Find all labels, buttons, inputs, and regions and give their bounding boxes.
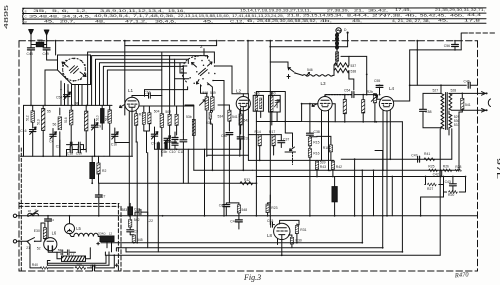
wire L3 left entry bbox=[302, 103, 318, 105]
svg-text:45,: 45, bbox=[438, 19, 448, 23]
power unit dashed partition vertical inner bbox=[120, 206, 122, 271]
capacitor C31 bbox=[237, 137, 244, 139]
capacitor C55 bbox=[376, 85, 383, 87]
power nested line 1 bbox=[47, 255, 106, 263]
wire 170.3 line bbox=[194, 169, 253, 171]
svg-text:C4: C4 bbox=[49, 139, 53, 143]
capacitor C53 bbox=[271, 222, 273, 227]
svg-text:C58: C58 bbox=[425, 110, 431, 114]
volume control contact bbox=[290, 147, 295, 151]
wire band bus 3 bbox=[96, 59, 189, 105]
wire L2 pins down bbox=[240, 94, 249, 171]
svg-text:21,: 21, bbox=[354, 8, 364, 12]
svg-text:C11: C11 bbox=[178, 150, 184, 154]
resistor R40 bbox=[40, 267, 48, 270]
svg-text:C37: C37 bbox=[283, 137, 289, 141]
coil 513 bbox=[42, 109, 45, 131]
svg-text:536: 536 bbox=[254, 91, 260, 95]
wire mesh drop bbox=[421, 192, 444, 216]
svg-text:R2: R2 bbox=[102, 169, 106, 173]
grid contact arrow bbox=[120, 105, 125, 108]
capacitor C45 bbox=[93, 265, 95, 271]
svg-text:511: 511 bbox=[104, 115, 108, 121]
svg-text:R30: R30 bbox=[296, 238, 302, 242]
wire L3 cathode down bbox=[322, 110, 329, 170]
svg-text:583: 583 bbox=[122, 208, 128, 212]
svg-text:45,: 45, bbox=[44, 20, 54, 24]
tube L3 envelope bbox=[318, 97, 332, 111]
chassis dashed border right bbox=[477, 41, 479, 271]
wire L1 pins down bbox=[129, 111, 132, 216]
wire lamp shunt loop bbox=[337, 33, 348, 47]
coil 510 dark bbox=[101, 109, 104, 123]
power unit dashed partition horizontal upper bbox=[19, 203, 119, 205]
svg-text:510: 510 bbox=[96, 115, 100, 121]
node earth on border bbox=[46, 40, 48, 42]
wire vertical 193.8 bbox=[185, 105, 194, 170]
wire hum coil pins bbox=[449, 128, 452, 159]
bus crossing dots bbox=[361, 215, 363, 217]
svg-text:C49: C49 bbox=[43, 52, 49, 56]
scale band line 4 bbox=[23, 22, 487, 24]
wire band bus 6 bbox=[107, 70, 161, 105]
tube L6 envelope bbox=[44, 238, 57, 251]
svg-text:502: 502 bbox=[165, 110, 171, 114]
resistor 549 bbox=[129, 219, 132, 227]
tube L4 electrodes bbox=[383, 99, 391, 101]
wire band bus 2 bbox=[92, 56, 208, 106]
capacitor C13 bbox=[149, 93, 151, 98]
switch S1 contact pins bbox=[65, 60, 67, 62]
wire band bus 5 bbox=[103, 66, 183, 105]
field coil loops bbox=[70, 233, 99, 236]
capacitor C3 link bbox=[59, 140, 61, 156]
wire L1 top line bbox=[132, 96, 148, 98]
mains terminal 2 bbox=[13, 240, 16, 243]
choke 522 dark bbox=[90, 163, 95, 179]
resistor R2b bbox=[373, 94, 376, 103]
wire long vertical 166 bbox=[166, 142, 177, 149]
capacitor C49 bbox=[43, 48, 50, 50]
wire L5 to bus bbox=[69, 216, 71, 224]
svg-text:C54: C54 bbox=[344, 88, 350, 92]
svg-text:17,45,: 17,45, bbox=[395, 8, 411, 12]
capacitor C56 bbox=[452, 45, 459, 47]
wire long vertical 147.7 bbox=[147, 153, 149, 248]
slider mark 546 bbox=[307, 73, 310, 76]
power nested line 2 bbox=[47, 252, 109, 265]
capacitor C37 bbox=[278, 141, 285, 143]
svg-text:R1: R1 bbox=[139, 113, 143, 117]
trimmer C50b bbox=[164, 136, 171, 143]
chassis dashed border left bbox=[18, 41, 20, 271]
wire grid feed L8 bbox=[269, 95, 271, 225]
svg-text:17,8: 17,8 bbox=[464, 19, 480, 23]
wire detector link 160.4 bbox=[248, 159, 334, 161]
scale band line 1 bbox=[23, 7, 487, 9]
svg-text:7,1,7,48,0,36,: 7,1,7,48,0,36, bbox=[133, 14, 175, 18]
svg-text:E30: E30 bbox=[34, 229, 40, 233]
wire avc line bbox=[99, 182, 250, 184]
wrap riser 382.7 bbox=[375, 151, 383, 248]
svg-text:545: 545 bbox=[137, 238, 143, 242]
coil 499 aerial coupling bbox=[36, 42, 43, 46]
resistor R14 bbox=[258, 135, 261, 146]
resistor R18 bbox=[329, 145, 332, 152]
svg-text:R20: R20 bbox=[448, 193, 454, 197]
tube L2 electrodes bbox=[239, 99, 247, 101]
svg-text:R31: R31 bbox=[300, 228, 306, 232]
speaker bracket bbox=[488, 99, 490, 107]
resistance wire 546 bbox=[303, 75, 334, 77]
capacitor C44 bbox=[236, 220, 243, 222]
svg-text:C56: C56 bbox=[444, 44, 450, 48]
svg-text:531: 531 bbox=[454, 123, 460, 127]
svg-text:R17: R17 bbox=[269, 130, 275, 134]
resistor 541 bbox=[228, 110, 231, 121]
wire pack vertical bbox=[255, 122, 257, 216]
wire osc left drop bbox=[270, 62, 288, 68]
wire S2 pins to IF1 bbox=[201, 83, 213, 93]
wrap wire 247.8 bbox=[116, 248, 382, 251]
svg-text:25,15,14,95,34,: 25,15,14,95,34, bbox=[303, 14, 343, 18]
coil 53b bbox=[192, 119, 195, 135]
svg-text:C31: C31 bbox=[243, 136, 249, 140]
svg-text:6,: 6, bbox=[247, 19, 255, 23]
svg-text:58: 58 bbox=[75, 102, 79, 106]
svg-text:12: 12 bbox=[109, 232, 113, 236]
wire R23 top link bbox=[268, 195, 271, 203]
scale band line 2 bbox=[23, 12, 487, 14]
resistor R20 bbox=[449, 191, 458, 194]
capacitor C43 bbox=[450, 184, 457, 186]
mains switch 21 52 bbox=[27, 238, 41, 242]
wire 366 riser bbox=[349, 56, 367, 94]
svg-text:C19: C19 bbox=[76, 151, 82, 155]
node aerial on border bbox=[30, 40, 32, 42]
svg-text:17,41,48,51,13,23,24,25,: 17,41,48,51,13,23,24,25, bbox=[232, 14, 284, 18]
wire S2 stem bbox=[203, 49, 205, 55]
wrap riser 402.4 bbox=[401, 122, 403, 252]
svg-text:R2b: R2b bbox=[367, 90, 373, 94]
svg-text:C15: C15 bbox=[134, 208, 140, 212]
wire 176.5 line bbox=[256, 176, 465, 178]
scale band left bracket bbox=[23, 8, 24, 23]
wire aerial down bbox=[30, 35, 32, 48]
svg-text:C47: C47 bbox=[411, 153, 417, 157]
resistor 542 bbox=[239, 114, 242, 125]
wire coil bank top bus bbox=[24, 104, 113, 106]
svg-text:L22: L22 bbox=[147, 219, 153, 223]
svg-text:21,8,: 21,8, bbox=[287, 14, 301, 18]
speaker terminal arrows bbox=[482, 92, 486, 113]
svg-text:R27: R27 bbox=[427, 187, 433, 191]
wire osc coil box bbox=[341, 56, 354, 90]
capacitor C54 bbox=[352, 92, 354, 98]
svg-text:45,: 45, bbox=[203, 19, 213, 23]
node L22 bbox=[147, 211, 149, 213]
svg-text:46b,: 46b, bbox=[450, 13, 464, 17]
svg-text:C,12,: C,12, bbox=[230, 19, 244, 23]
wire chain to osc coils bbox=[334, 61, 337, 75]
tube L6 electrodes bbox=[47, 240, 54, 242]
capacitor C58 bbox=[420, 109, 427, 111]
svg-text:527: 527 bbox=[433, 89, 439, 93]
svg-text:44,4: 44,4 bbox=[467, 13, 481, 17]
svg-text:34,3,4,5,: 34,3,4,5, bbox=[62, 14, 91, 18]
svg-text:539: 539 bbox=[320, 161, 326, 165]
main earth bus bbox=[20, 215, 478, 217]
capacitor C48 bbox=[28, 48, 35, 50]
wire L6 pins caps bbox=[48, 250, 75, 252]
svg-text:15,14,17,18,19,20,33,27,13,11,: 15,14,17,18,19,20,33,27,13,11, bbox=[240, 9, 311, 13]
svg-text:L7: L7 bbox=[71, 253, 75, 257]
svg-text:5, 6,: 5, 6, bbox=[52, 9, 69, 13]
svg-text:538: 538 bbox=[351, 69, 357, 73]
svg-text:56,42,45,: 56,42,45, bbox=[420, 13, 446, 17]
dial lamp D bbox=[336, 28, 341, 33]
tube L1 envelope bbox=[125, 97, 139, 111]
wire coils bottom stubs to low bus bbox=[33, 122, 110, 156]
svg-text:R41: R41 bbox=[424, 152, 430, 156]
svg-text:541: 541 bbox=[232, 115, 238, 119]
svg-text:3,8,9,10,11,12,13,4,: 3,8,9,10,11,12,13,4, bbox=[100, 9, 164, 13]
wire border to switch top bbox=[55, 41, 57, 55]
wire 170.3 line bbox=[252, 169, 330, 172]
svg-text:513: 513 bbox=[37, 119, 41, 125]
wire L1 side line bbox=[139, 105, 194, 107]
svg-text:20,7,: 20,7, bbox=[60, 20, 75, 24]
capacitor 454 bbox=[45, 219, 52, 221]
wire border tap 248 bbox=[247, 41, 249, 94]
svg-text:R23: R23 bbox=[271, 206, 277, 210]
svg-text:499: 499 bbox=[37, 38, 43, 42]
svg-text:L8: L8 bbox=[267, 233, 272, 238]
coil 511 bbox=[108, 110, 111, 123]
coil 512 bbox=[31, 111, 34, 122]
resistor R24 bbox=[362, 100, 365, 113]
wire C18 C19 link bbox=[72, 149, 86, 152]
svg-text:R2b: R2b bbox=[443, 165, 449, 169]
svg-text:45,: 45, bbox=[352, 19, 362, 23]
svg-text:C18: C18 bbox=[67, 151, 73, 155]
wire C49 to switch bbox=[47, 50, 58, 60]
resistor R31 bbox=[295, 225, 298, 233]
svg-text:56: 56 bbox=[53, 123, 57, 127]
svg-text:C1b: C1b bbox=[111, 143, 117, 147]
svg-text:R40: R40 bbox=[32, 263, 38, 267]
resistor R2 bbox=[97, 163, 100, 174]
wire band bus 4 bbox=[100, 63, 187, 106]
wire line 121.8 bbox=[332, 104, 402, 122]
capacitor C19 bbox=[78, 147, 80, 153]
wire long vertical 137 bbox=[136, 142, 137, 243]
wire S2 right exits bbox=[213, 66, 248, 216]
wire S2 left stubs bbox=[175, 66, 189, 79]
wire S1 left lower bbox=[45, 70, 58, 105]
wire mid bundle verticals bbox=[162, 52, 184, 132]
switch S2 rotor bbox=[199, 68, 208, 75]
svg-text:C30: C30 bbox=[221, 134, 227, 138]
svg-text:C42: C42 bbox=[433, 172, 439, 176]
trimmer C16 bbox=[30, 127, 37, 134]
svg-text:53b: 53b bbox=[186, 115, 192, 119]
svg-text:C3: C3 bbox=[56, 144, 60, 148]
svg-text:S: S bbox=[25, 9, 27, 13]
svg-text:C44: C44 bbox=[230, 220, 236, 224]
svg-text:534Ω: 534Ω bbox=[98, 232, 106, 236]
wire top feed bbox=[410, 41, 462, 86]
output transformer secondary 528 bbox=[449, 93, 452, 110]
svg-text:21,35,29,30,31,32,71,: 21,35,29,30,31,32,71, bbox=[435, 8, 485, 12]
wire S2 to grid line bbox=[145, 87, 188, 97]
IF transformer 1 coil 520 bbox=[211, 97, 214, 110]
wire L3 grid lead beaded bbox=[325, 95, 352, 97]
svg-text:R18: R18 bbox=[323, 146, 329, 150]
svg-text:541: 541 bbox=[465, 103, 471, 107]
svg-text:18: 18 bbox=[28, 209, 32, 213]
svg-text:Fig.3: Fig.3 bbox=[243, 273, 261, 282]
output transformer core bbox=[446, 93, 448, 130]
svg-text:540: 540 bbox=[270, 91, 276, 95]
electrolytic block bbox=[100, 236, 114, 242]
wire R18 branch bbox=[310, 136, 331, 160]
resistor R19 bbox=[343, 99, 346, 113]
lamp L5 bbox=[65, 224, 75, 234]
wire R14 R17 tops bbox=[248, 135, 281, 161]
resistor 548 bbox=[75, 267, 86, 270]
capacitor C3b bbox=[127, 230, 134, 232]
capacitor 54a bbox=[70, 142, 72, 147]
tube L8 envelope bbox=[274, 223, 290, 239]
svg-text:537: 537 bbox=[351, 64, 357, 68]
switch S1 contact ring bbox=[74, 58, 85, 69]
thermal fuse bead chain bbox=[336, 33, 338, 62]
resistor R44 bbox=[424, 158, 435, 161]
trimmer C1b bbox=[112, 132, 119, 139]
wire band bus 1 bbox=[88, 52, 215, 105]
resistor 503 bbox=[175, 114, 178, 125]
coil 516 bbox=[70, 110, 73, 125]
coil 56 bbox=[58, 117, 61, 130]
trimmer C5 bbox=[151, 132, 158, 139]
svg-text:534: 534 bbox=[218, 115, 224, 119]
mains terminal 1 bbox=[13, 214, 16, 217]
gramophone jacks on bus bbox=[28, 211, 39, 217]
wrap wire 251.9 bbox=[126, 251, 402, 253]
wire earth down bbox=[46, 35, 48, 48]
mains dropper box bbox=[62, 256, 86, 261]
resistor R16 bbox=[308, 149, 311, 158]
osc switch contacts bbox=[288, 68, 294, 73]
IF1 trimmer arrow bbox=[200, 100, 206, 106]
power choke L11 dark bbox=[128, 207, 133, 215]
svg-text:R15: R15 bbox=[313, 140, 319, 144]
svg-text:4895: 4895 bbox=[4, 5, 10, 29]
wire vertical 373.5 bbox=[373, 170, 375, 216]
capacitor 505 bbox=[142, 112, 145, 124]
coil 55 bbox=[85, 111, 88, 131]
wire r-c mesh bbox=[444, 177, 466, 193]
wire cluster verticals down bbox=[183, 149, 188, 183]
switch S2 contacts bbox=[194, 58, 196, 60]
resistor R26 bbox=[443, 169, 452, 172]
scale band line 3 bbox=[23, 18, 487, 20]
power unit dashed partition vertical outer bbox=[117, 204, 119, 271]
earth terminal arrow bbox=[45, 30, 49, 35]
capacitor C30 bbox=[226, 133, 233, 135]
R2b trimmer arrow bbox=[371, 95, 377, 101]
osc coil pack 540 bbox=[269, 95, 281, 112]
svg-text:27,38,39,: 27,38,39, bbox=[327, 8, 349, 12]
svg-text:L3: L3 bbox=[321, 81, 327, 86]
capacitor C17 series pair bbox=[157, 143, 159, 149]
capacitor C38 bbox=[307, 133, 314, 135]
svg-text:C3: C3 bbox=[134, 229, 138, 233]
tube L2 envelope bbox=[236, 97, 250, 111]
wire vertical 270 from border bbox=[269, 41, 271, 95]
svg-text:C13: C13 bbox=[144, 90, 150, 94]
svg-text:C5b: C5b bbox=[161, 150, 167, 154]
svg-text:36,4,6,: 36,4,6, bbox=[155, 20, 176, 24]
trimmer C4 bbox=[50, 132, 57, 139]
switch S2 wiper arrows bbox=[192, 63, 197, 68]
tube L8 electrodes bbox=[277, 227, 286, 229]
switch S1 wiper arrows bbox=[62, 62, 68, 67]
trimmer C50 bbox=[64, 95, 71, 97]
svg-text:2: 2 bbox=[200, 44, 203, 49]
resistor 540 bbox=[461, 98, 464, 109]
wire 170.3 right bbox=[330, 169, 459, 171]
svg-text:L5: L5 bbox=[76, 226, 81, 231]
capacitor C10 stack bbox=[174, 132, 176, 149]
svg-text:519: 519 bbox=[203, 91, 209, 95]
svg-text:C9: C9 bbox=[97, 124, 101, 128]
coil 538 bbox=[334, 68, 349, 72]
capacitor 56b bbox=[67, 250, 69, 255]
svg-text:R25: R25 bbox=[428, 165, 434, 169]
resistor R15 bbox=[308, 137, 311, 146]
resistor R23 bbox=[266, 204, 269, 213]
svg-text:4b,: 4b, bbox=[320, 19, 332, 23]
svg-text:L2: L2 bbox=[236, 88, 242, 93]
IF1 small coil 534 bbox=[209, 112, 212, 119]
svg-text:15,16,: 15,16, bbox=[168, 9, 185, 13]
wrap riser 362.3 bbox=[361, 170, 363, 242]
wire primary top bbox=[423, 85, 441, 109]
resistor R28 bbox=[455, 169, 461, 171]
capacitor C46 bbox=[468, 82, 470, 88]
svg-text:504: 504 bbox=[154, 110, 160, 114]
resistor R27 bbox=[427, 183, 436, 186]
power unit dashed partition horizontal lower bbox=[19, 205, 119, 207]
wire C48 to coil bank bbox=[30, 50, 32, 106]
svg-text:5b: 5b bbox=[35, 208, 39, 212]
wrap riser 440.2 bbox=[439, 129, 441, 255]
capacitor 54b bbox=[78, 142, 80, 147]
wire coil bank lower bus bbox=[21, 155, 105, 157]
svg-text:L6: L6 bbox=[52, 230, 57, 235]
svg-text:56: 56 bbox=[58, 248, 62, 252]
coil 537 bbox=[334, 63, 349, 67]
svg-text:R32: R32 bbox=[244, 178, 250, 182]
node C5 bottom bbox=[154, 145, 156, 149]
svg-text:C7: C7 bbox=[101, 195, 105, 199]
svg-text:35,: 35, bbox=[33, 9, 47, 13]
tube L3 electrodes bbox=[321, 99, 329, 101]
svg-text:516: 516 bbox=[64, 117, 68, 123]
svg-text:48,: 48, bbox=[95, 20, 105, 24]
